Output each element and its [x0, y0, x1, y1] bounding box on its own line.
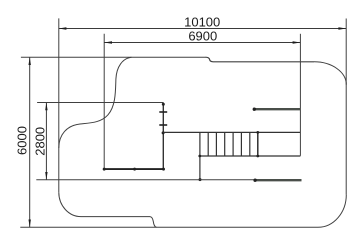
dimension 10100 left arrow [59, 27, 67, 29]
dimension 6000 bottom arrow [29, 220, 31, 228]
pool outline: top edge left portion + extension [21, 56, 206, 58]
node spa bottom midpoint dot [133, 168, 136, 171]
stair tread 2 [207, 132, 209, 156]
stair tread 7 [249, 132, 251, 156]
node spa right edge / stairs top junction dot [162, 131, 165, 134]
dimension 10100 line [59, 28, 347, 30]
pool outline: top edge jog at x~208 [206, 57, 214, 62]
node handrail upper left end dot [253, 108, 256, 111]
pool outline: bottom-left corner arc [59, 192, 81, 216]
stairs bottom line [200, 155, 301, 157]
node spa bottom-left corner dot [103, 168, 106, 171]
pool outline: S-curve top-left transition [59, 57, 132, 148]
spa rectangle right edge [162, 103, 164, 170]
spa rectangle top edge + 2800 extension [37, 102, 163, 104]
dimension 2800 line [45, 103, 47, 180]
pool outline: right edge + extension for 10100 [345, 19, 347, 195]
handrail upper (thick) [254, 108, 301, 110]
stair side wall (first tread, extends to lower line) [199, 132, 201, 179]
node spa bottom-right corner dot [162, 168, 165, 171]
svg-text:10100: 10100 [184, 14, 220, 29]
stair tread 8 [257, 132, 259, 156]
stairs top line [163, 131, 300, 133]
dimension 6000 top arrow [29, 57, 31, 65]
stair tread 6 [240, 132, 242, 156]
node handrail lower left end dot [253, 179, 256, 182]
dimension 2800 bottom arrow [45, 172, 47, 180]
tick mark on spa right edge lower [159, 124, 167, 126]
stair tread 3 [215, 132, 217, 156]
pool outline: top-right corner arc [314, 62, 346, 85]
pool outline: bottom-right corner arc [318, 195, 346, 228]
tick mark on spa right edge upper [159, 111, 167, 113]
pool outline: inner bottom-left ledge line [81, 216, 150, 218]
node spa top-right corner dot [162, 103, 165, 106]
pool internal wall at x=300 + 6900 extension [299, 34, 301, 156]
stair tread 4 [224, 132, 226, 156]
pool outline: bottom ledge jog at x~152 [150, 217, 157, 228]
stair tread 5 [232, 132, 234, 156]
dimension 6000 line [29, 57, 31, 227]
dimension 6900 left arrow [104, 41, 112, 43]
node stair side wall bottom dot [199, 178, 202, 181]
svg-text:6000: 6000 [15, 126, 30, 155]
handrail lower (thick) [255, 179, 302, 181]
node tread-8 bottom dot [256, 155, 259, 158]
spa rectangle bottom edge (thick) [104, 168, 164, 170]
internal floor line at y=180 + 2800 extension [36, 179, 255, 181]
svg-text:2800: 2800 [33, 127, 48, 156]
dimension 2800 top arrow [45, 103, 47, 111]
spa rectangle left edge + 6900 extension [103, 34, 105, 169]
dimension 10100 right arrow [338, 27, 346, 29]
pool outline: top edge right portion [213, 61, 314, 63]
node stairs bottom-left junction dot [198, 155, 201, 158]
pool outline: bottom edge long line [20, 226, 318, 228]
pool outline: left edge + extension for 10100 [58, 18, 60, 192]
dimension 6900 right arrow [293, 41, 301, 43]
svg-text:6900: 6900 [188, 29, 217, 44]
node tread-8 top dot [256, 131, 259, 134]
dimension 6900 line [104, 42, 300, 44]
